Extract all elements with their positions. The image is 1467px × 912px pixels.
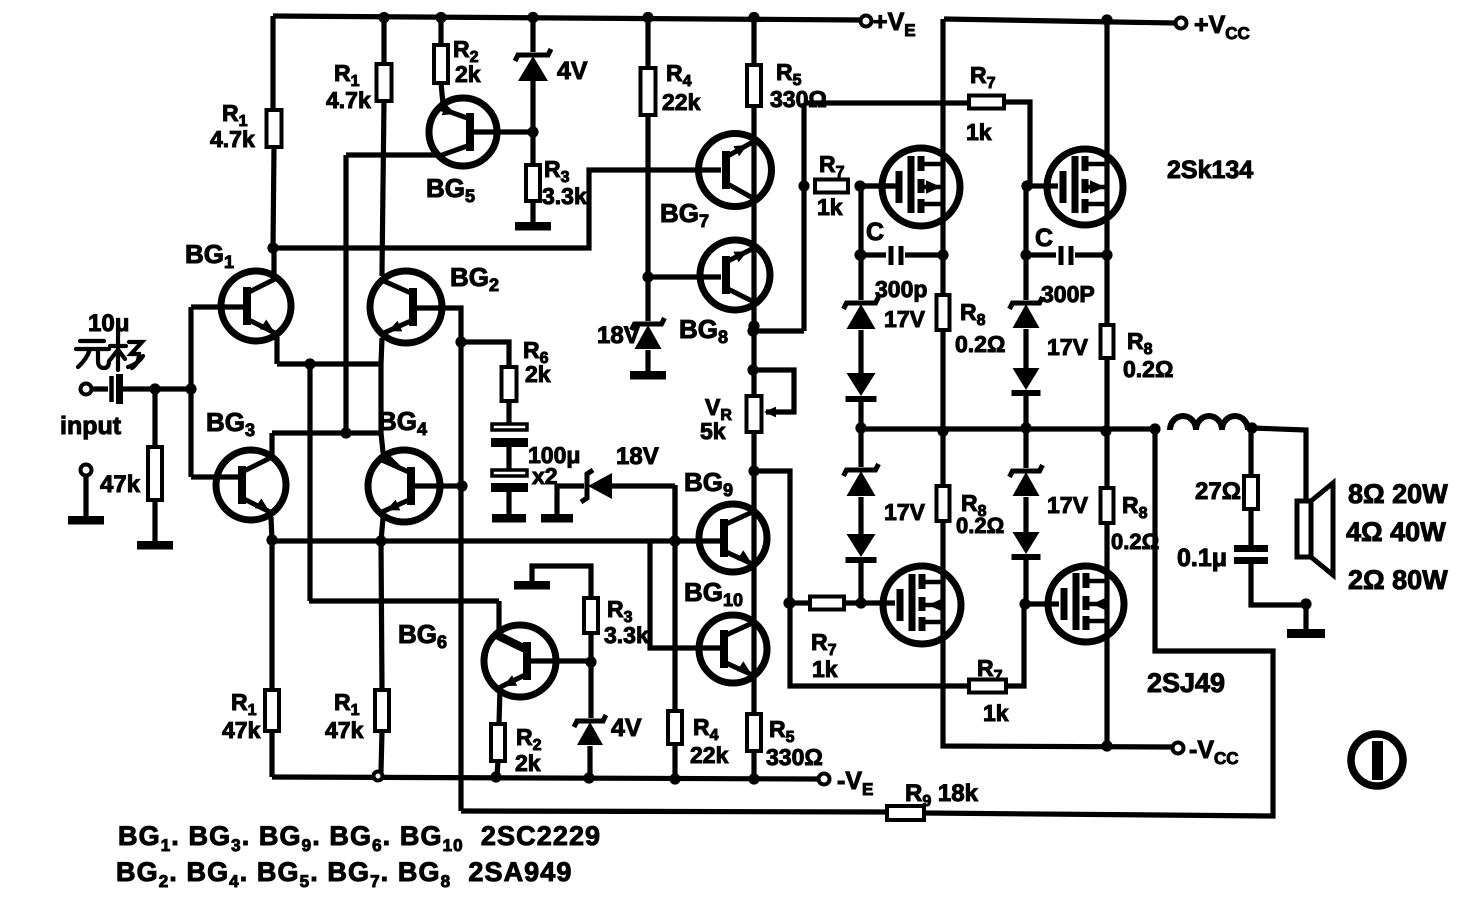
svg-text:330Ω: 330Ω [766,744,823,770]
svg-text:47k: 47k [100,471,141,498]
svg-text:3.3k: 3.3k [604,622,649,648]
svg-text:C: C [1035,224,1053,252]
svg-text:0.2Ω: 0.2Ω [956,513,1004,538]
svg-text:22k: 22k [662,89,701,115]
svg-text:1k: 1k [966,119,992,145]
svg-text:22k: 22k [690,742,729,768]
svg-text:BG1. BG3. BG9. BG6. BG10 2SC2: BG1. BG3. BG9. BG6. BG10 2SC2229 [118,821,601,855]
svg-text:0.2Ω: 0.2Ω [955,331,1005,357]
svg-text:C: C [866,218,884,246]
svg-text:4.7k: 4.7k [210,126,255,152]
svg-text:18V: 18V [597,322,640,349]
svg-text:1k: 1k [812,656,838,682]
svg-text:2k: 2k [525,361,551,387]
svg-text:1k: 1k [817,194,843,220]
svg-text:0.1μ: 0.1μ [1177,544,1227,572]
svg-text:17V: 17V [884,306,926,332]
svg-text:47k: 47k [325,717,364,743]
svg-text:R9 18k: R9 18k [905,780,979,810]
svg-text:4.7k: 4.7k [326,87,371,113]
svg-text:2k: 2k [455,61,481,87]
svg-text:3.3k: 3.3k [542,183,587,209]
svg-text:8Ω 20W: 8Ω 20W [1348,479,1448,509]
svg-text:2SJ49: 2SJ49 [1147,668,1225,698]
svg-text:4Ω 40W: 4Ω 40W [1346,517,1446,547]
svg-text:2Sk134: 2Sk134 [1167,156,1253,184]
svg-text:0.2Ω: 0.2Ω [1123,356,1173,382]
svg-text:1k: 1k [983,700,1009,726]
svg-text:x2: x2 [532,463,558,489]
svg-text:47k: 47k [222,717,261,743]
svg-text:4V: 4V [611,714,642,742]
svg-text:input: input [60,412,122,440]
svg-text:17V: 17V [1047,492,1089,518]
svg-text:BG2. BG4. BG5. BG7. BG8 2SA94: BG2. BG4. BG5. BG7. BG8 2SA949 [116,857,573,891]
svg-text:300p: 300p [875,276,927,302]
svg-text:300P: 300P [1041,281,1095,307]
svg-text:0.2Ω: 0.2Ω [1111,529,1159,554]
svg-text:2k: 2k [515,750,541,776]
svg-text:17V: 17V [1047,334,1089,360]
svg-text:5k: 5k [700,418,726,444]
svg-text:330Ω: 330Ω [770,86,827,112]
svg-text:10μ: 10μ [88,310,129,337]
svg-text:17V: 17V [884,499,926,525]
svg-text:27Ω: 27Ω [1195,478,1241,505]
svg-text:18V: 18V [616,443,659,470]
svg-text:2Ω 80W: 2Ω 80W [1348,565,1448,595]
svg-text:4V: 4V [557,57,588,85]
